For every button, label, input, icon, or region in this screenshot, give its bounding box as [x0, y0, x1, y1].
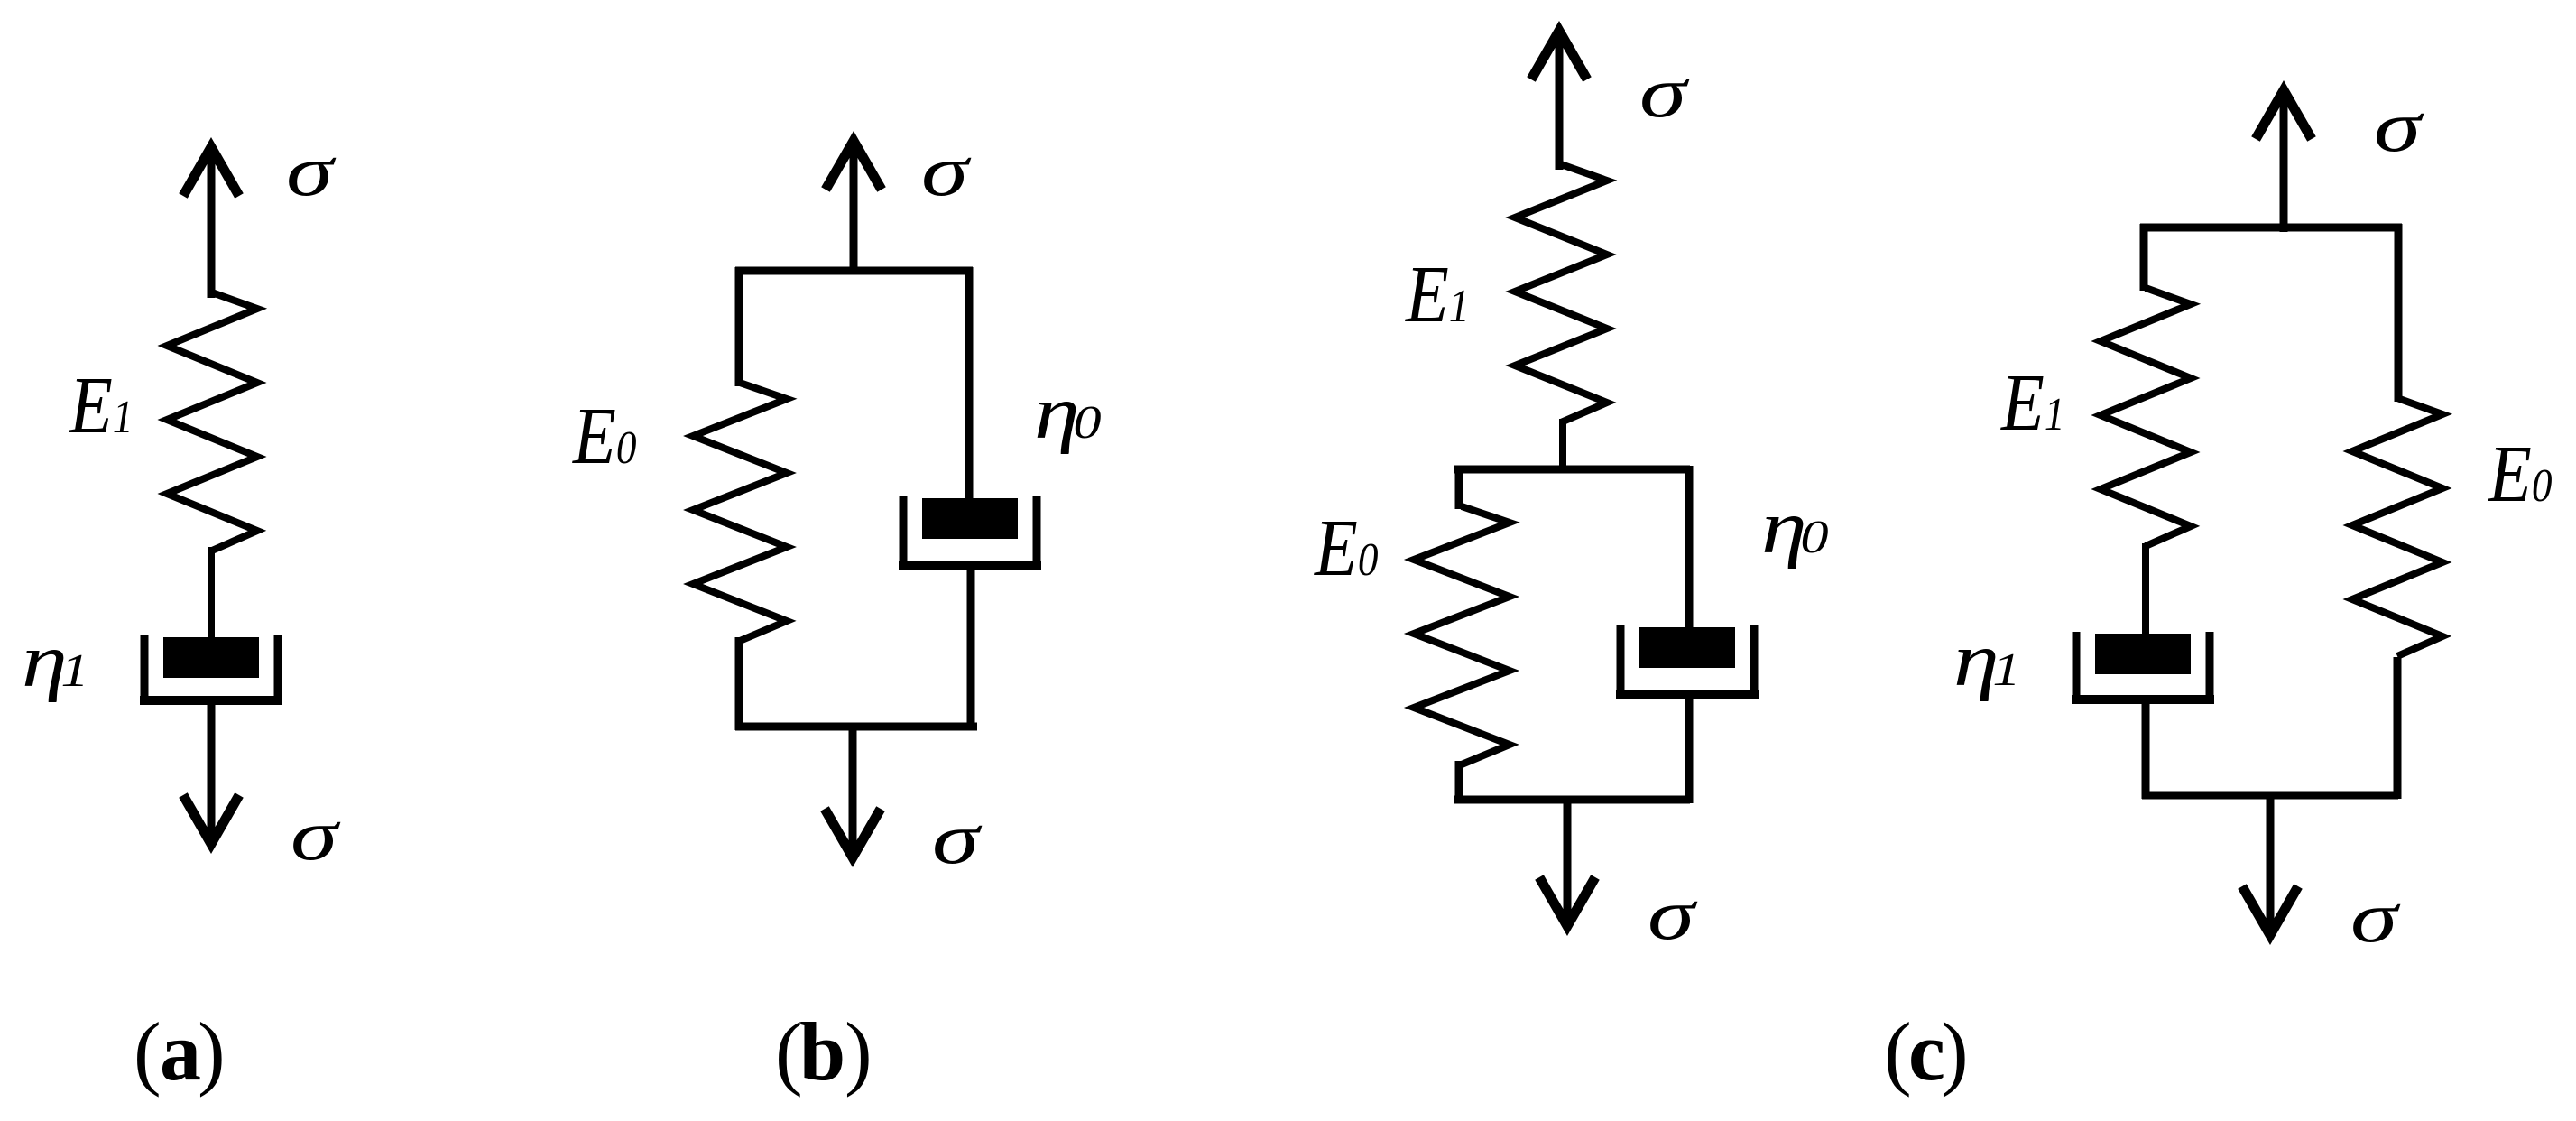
stress arrow up, model a	[183, 147, 239, 298]
svg-text:σ: σ	[932, 800, 983, 879]
svg-text:σ: σ	[1639, 53, 1690, 133]
dashpot eta0, model b	[899, 496, 1041, 566]
spring E1, model a	[167, 292, 257, 551]
dashpot eta1, model a	[140, 635, 282, 700]
wire spring-to-box, model c-left	[1559, 419, 1566, 473]
top bar, model c-left	[1454, 466, 1690, 474]
right branch lower wire, model c-right	[2394, 657, 2402, 799]
stress arrow down, model c-right	[2242, 792, 2298, 935]
right branch upper wire, model c-left	[1685, 466, 1694, 631]
svg-text:(b): (b)	[775, 1005, 873, 1098]
stress arrow up, model c-right	[2256, 90, 2312, 232]
left branch lower wire, model c-left	[1455, 761, 1463, 803]
spring E1, model c-left	[1515, 164, 1607, 422]
svg-text:σ: σ	[921, 132, 972, 211]
spring E0, model b	[693, 383, 787, 641]
stress arrow down, model b	[825, 723, 881, 857]
stress arrow down, model c-left	[1539, 796, 1595, 926]
svg-text:σ: σ	[1648, 875, 1698, 955]
svg-text:(c): (c)	[1884, 1005, 1969, 1098]
svg-text:(a): (a)	[134, 1005, 226, 1098]
svg-text:σ: σ	[291, 796, 341, 875]
dashpot eta1, model c-right	[2072, 632, 2214, 699]
left branch upper wire, model c-right	[2140, 224, 2148, 291]
stress arrow up, model b	[826, 141, 882, 274]
spring E0, model c-left	[1414, 506, 1510, 764]
svg-text:σ: σ	[286, 132, 337, 211]
right branch upper wire, model b	[965, 267, 974, 502]
bottom bar, model c-left	[1454, 796, 1690, 804]
top bar, model c-right	[2140, 224, 2402, 232]
right branch upper wire, model c-right	[2395, 224, 2403, 402]
bottom bar, model b	[735, 723, 977, 731]
dashpot eta0, model c-left	[1616, 625, 1759, 695]
stress arrow down, model a	[183, 699, 239, 844]
wire spring-to-dashpot, model a	[208, 547, 215, 641]
spring E0, model c-right	[2352, 398, 2442, 656]
right branch lower wire, model c-left	[1685, 695, 1694, 803]
spring E1, model c-right	[2101, 288, 2191, 546]
svg-text:σ: σ	[2350, 878, 2401, 958]
wire spring-to-dashpot, model c-right	[2142, 543, 2149, 637]
left branch lower wire, model b	[735, 637, 743, 730]
left branch lower wire, model c-right	[2142, 699, 2150, 799]
left branch upper wire, model c-left	[1455, 466, 1463, 509]
stress arrow up, model c-left	[1531, 31, 1587, 170]
right branch lower wire, model b	[967, 566, 975, 730]
top bar, model b	[735, 267, 973, 275]
bottom bar, model c-right	[2142, 792, 2398, 800]
svg-text:σ: σ	[2374, 88, 2424, 167]
left branch upper wire, model b	[735, 267, 743, 386]
